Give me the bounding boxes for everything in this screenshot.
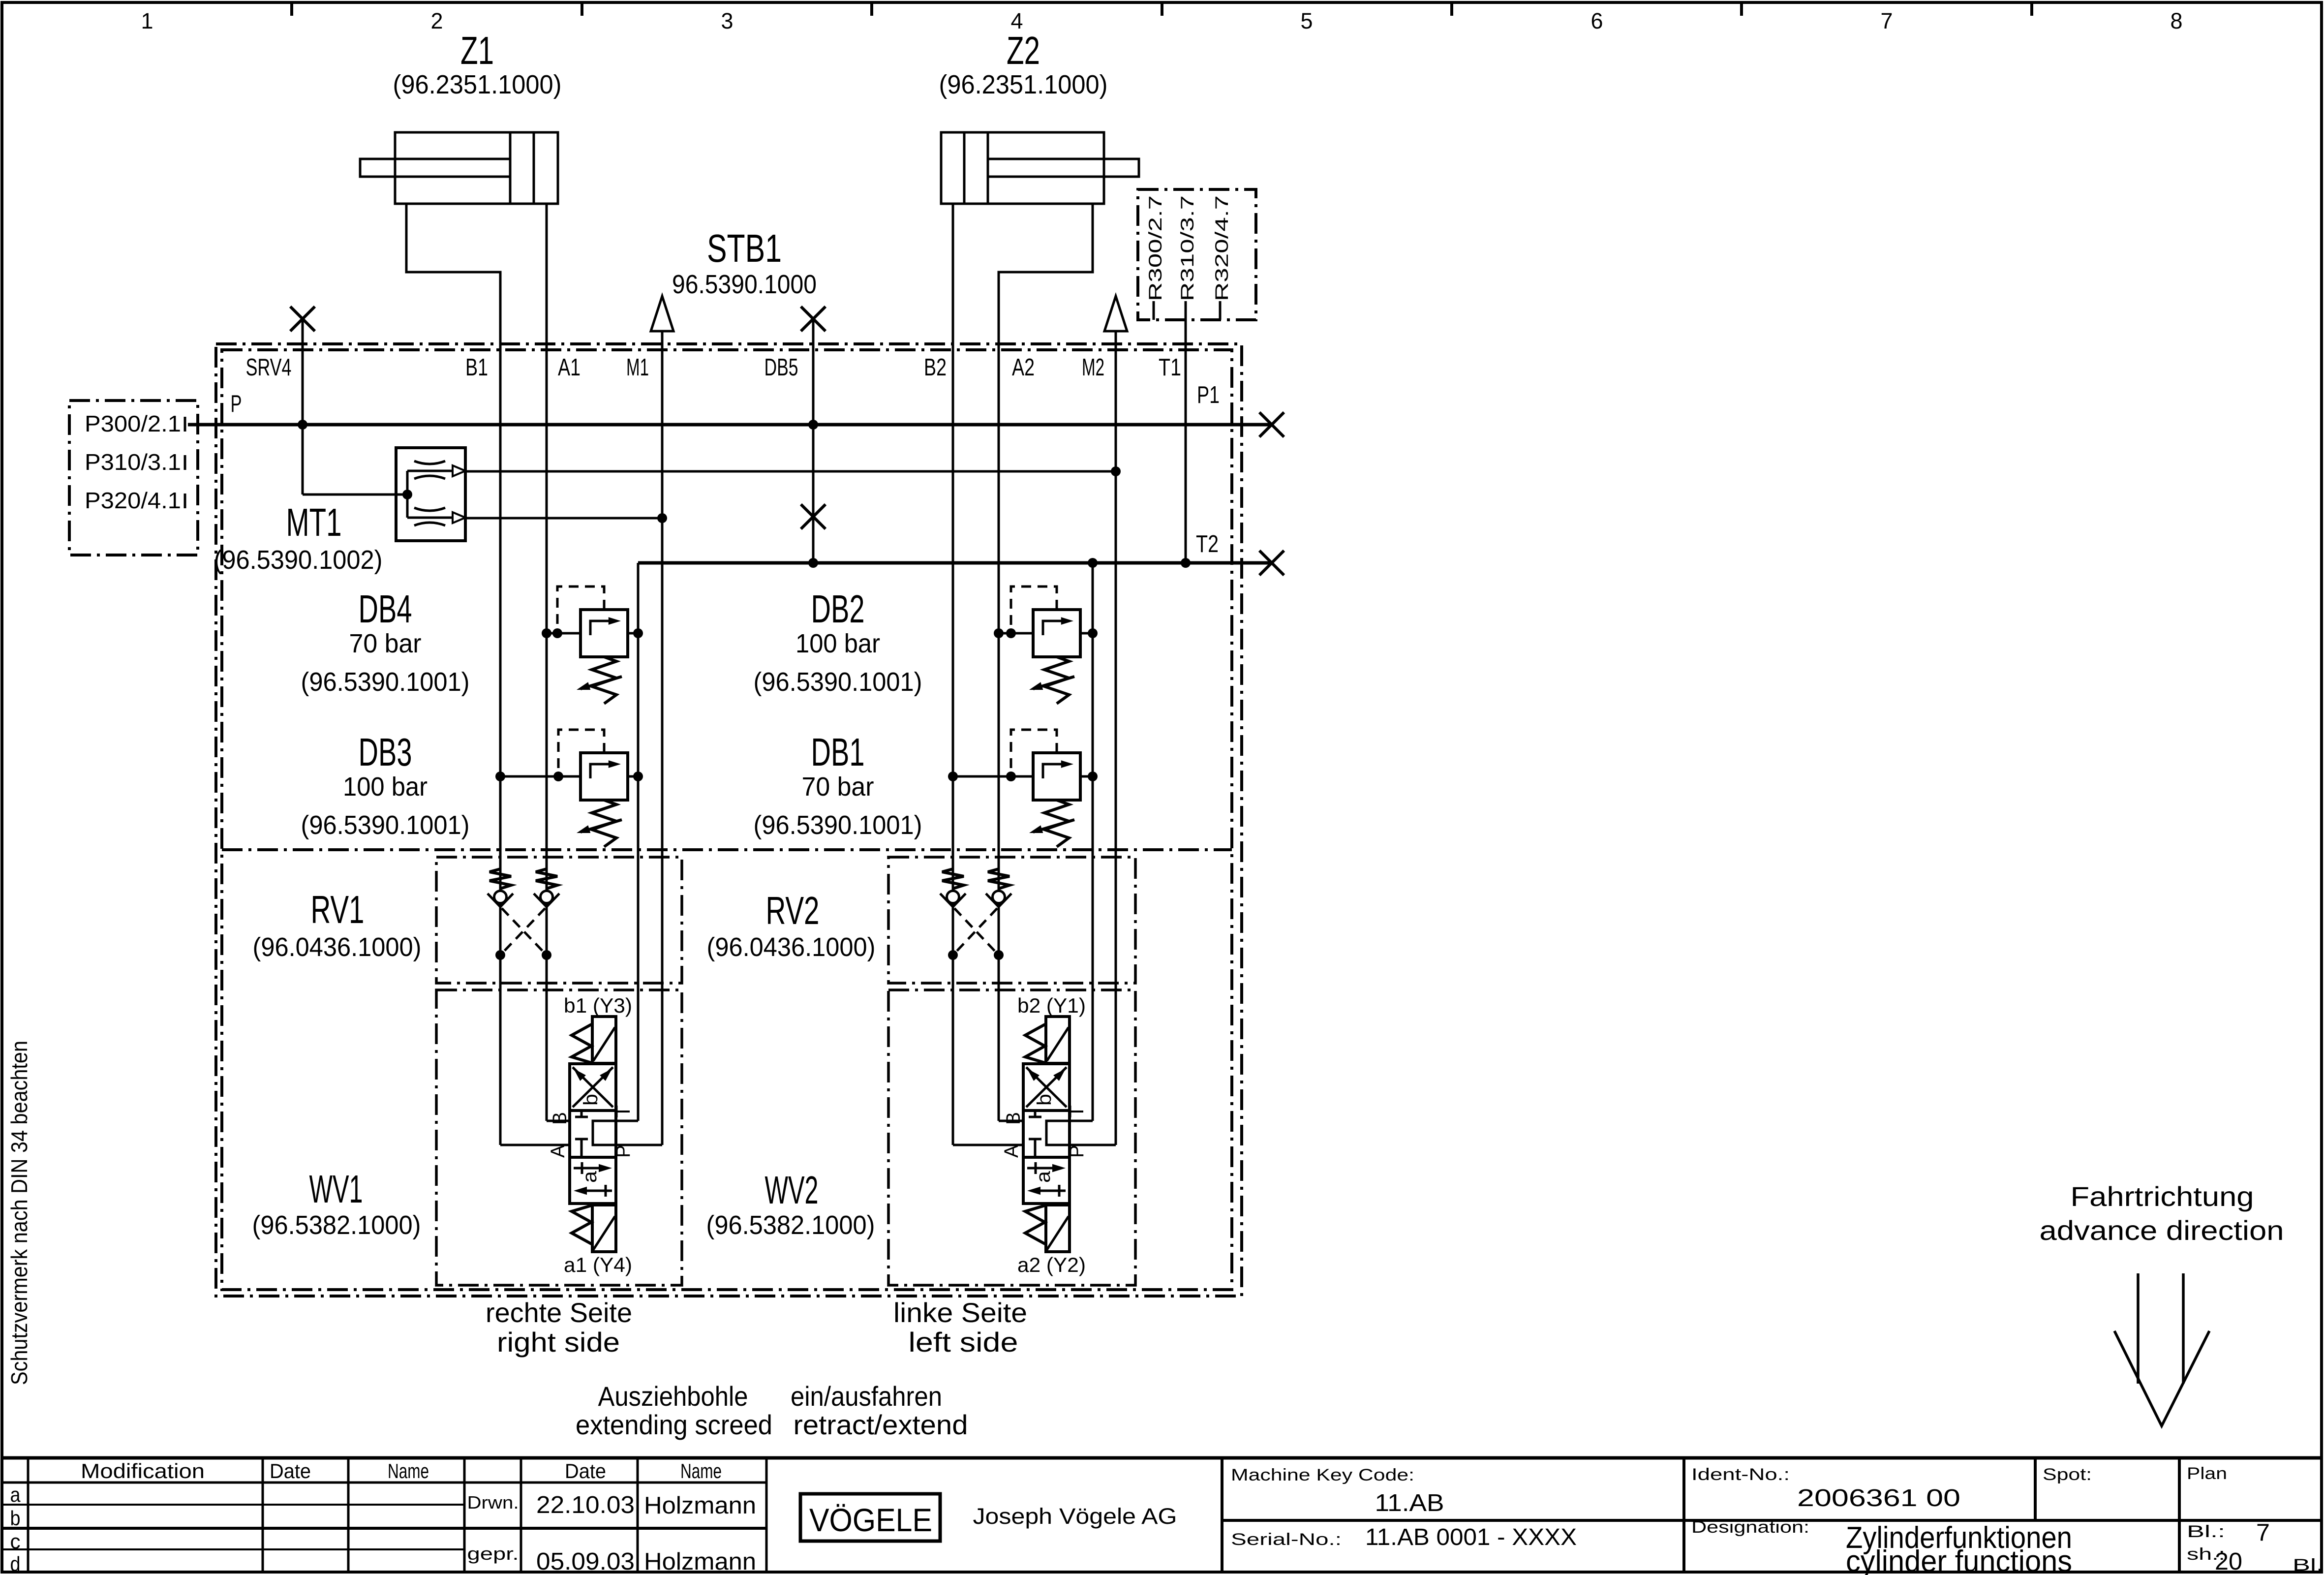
svg-text:b: b <box>580 1094 602 1106</box>
svg-text:Bl.:: Bl.: <box>2293 1556 2324 1575</box>
svg-text:B: B <box>549 1112 571 1125</box>
svg-text:extending screed: extending screed <box>576 1409 772 1440</box>
svg-text:Drwn.: Drwn. <box>467 1492 519 1513</box>
directional valve WV2 body <box>1023 1064 1070 1204</box>
relief valve DB2 <box>999 587 1093 704</box>
wire MT1 bottom output <box>465 517 662 520</box>
junction DB4 pilot <box>552 628 562 638</box>
svg-text:a: a <box>579 1171 601 1183</box>
wire M2 to WV2 P port <box>1069 1144 1116 1146</box>
svg-text:a: a <box>1033 1171 1054 1183</box>
cylinder Z1 <box>360 132 558 204</box>
svg-text:Joseph Vögele AG: Joseph Vögele AG <box>973 1504 1177 1529</box>
svg-text:WV1: WV1 <box>309 1167 363 1211</box>
svg-text:70 bar: 70 bar <box>349 629 422 658</box>
wire Z1 cap side A1 <box>546 204 548 1121</box>
svg-text:WV2: WV2 <box>765 1168 819 1212</box>
junction T2 x T1 <box>1181 558 1191 568</box>
svg-text:2006361 00: 2006361 00 <box>1797 1485 1960 1512</box>
junction P x SRV4 <box>298 420 307 430</box>
svg-text:Schutzvermerk nach DIN 34 beac: Schutzvermerk nach DIN 34 beachten <box>6 1041 32 1385</box>
wire M1 to WV1 P port <box>616 1144 662 1146</box>
svg-text:(96.5390.1002): (96.5390.1002) <box>214 545 383 575</box>
directional valve WV1 body <box>570 1064 616 1204</box>
svg-text:Spot:: Spot: <box>2043 1465 2092 1484</box>
plug X on DB5 line <box>801 504 826 529</box>
title block dividers <box>1222 1458 2322 1572</box>
svg-text:VÖGELE: VÖGELE <box>809 1502 932 1538</box>
junction M1 x MT1 output <box>657 513 667 523</box>
svg-text:SRV4: SRV4 <box>246 354 292 381</box>
junction RV2 pilot left <box>948 950 958 960</box>
junction DB3 rail <box>633 772 643 781</box>
svg-text:DB1: DB1 <box>811 730 865 774</box>
svg-text:DB3: DB3 <box>359 730 412 774</box>
svg-text:a2 (Y2): a2 (Y2) <box>1017 1253 1086 1276</box>
svg-text:DB2: DB2 <box>811 587 865 631</box>
relief valve DB4 <box>547 587 638 704</box>
svg-text:b: b <box>10 1507 21 1530</box>
junction DB1 rail <box>1088 772 1098 781</box>
junction DB2 left <box>994 628 1004 638</box>
svg-text:RV1: RV1 <box>311 888 365 931</box>
junction DB3 pilot <box>553 772 563 781</box>
wire Z1 rod side to B1 <box>406 204 500 1145</box>
svg-text:M2: M2 <box>1082 354 1104 381</box>
junction P x DB5 <box>808 420 818 430</box>
RV1 section dash-dot box <box>436 857 682 983</box>
junction DB4 left <box>542 628 551 638</box>
junction RV1 pilot right <box>542 950 551 960</box>
svg-text:Serial-No.:: Serial-No.: <box>1231 1530 1342 1549</box>
cylinder Z2 <box>941 132 1139 204</box>
svg-text:Holzmann: Holzmann <box>644 1548 756 1575</box>
svg-text:Holzmann: Holzmann <box>644 1492 756 1519</box>
RV2 section dash-dot box <box>888 857 1135 983</box>
svg-text:P300/2.1: P300/2.1 <box>85 411 181 436</box>
svg-text:7: 7 <box>1881 8 1893 33</box>
check valve RV2b <box>986 869 1011 907</box>
wire M2 vertical <box>1115 331 1117 1145</box>
svg-text:Fahrtrichtung: Fahrtrichtung <box>2071 1181 2254 1212</box>
plug X at SRV4 <box>290 307 315 331</box>
svg-text:100 bar: 100 bar <box>343 772 428 802</box>
junction DB3 left <box>495 772 505 781</box>
junction M2 x MT1 output <box>1111 466 1121 476</box>
svg-text:20: 20 <box>2215 1548 2242 1575</box>
svg-text:cylinder functions: cylinder functions <box>1846 1544 2072 1575</box>
svg-text:(96.5390.1001): (96.5390.1001) <box>754 810 922 840</box>
svg-text:a1 (Y4): a1 (Y4) <box>564 1253 632 1276</box>
svg-text:A2: A2 <box>1012 354 1035 381</box>
svg-text:70 bar: 70 bar <box>802 772 874 802</box>
wire B1 to WV1 A port <box>500 1144 570 1146</box>
svg-text:a: a <box>10 1483 21 1506</box>
junction DB4 rail <box>633 628 643 638</box>
wire T1 vertical <box>1185 301 1187 563</box>
svg-text:DB4: DB4 <box>359 587 412 631</box>
advance direction arrow <box>2114 1273 2209 1426</box>
WV2 section dash-dot box <box>888 990 1135 1285</box>
plug X at T2 <box>1259 551 1284 575</box>
svg-text:A: A <box>1001 1145 1022 1158</box>
wire tank rail left <box>637 563 640 1121</box>
svg-text:left side: left side <box>909 1327 1018 1358</box>
svg-text:R310/3.7: R310/3.7 <box>1177 195 1197 301</box>
check valve RV2a <box>940 869 966 907</box>
svg-text:rechte Seite: rechte Seite <box>486 1297 632 1328</box>
check valve RV1a <box>488 869 513 907</box>
title block top line <box>2 1456 2322 1460</box>
wire SRV4 to MT1 <box>303 494 407 496</box>
svg-text:(96.5390.1001): (96.5390.1001) <box>754 667 922 697</box>
svg-text:Modification: Modification <box>81 1459 205 1482</box>
check valve RV1b <box>534 869 559 907</box>
svg-text:P1: P1 <box>1197 382 1220 408</box>
svg-text:05.09.03: 05.09.03 <box>536 1548 635 1575</box>
svg-text:Z1: Z1 <box>460 29 494 72</box>
wire DB5 vertical <box>812 319 815 563</box>
junction DB2 rail <box>1088 628 1098 638</box>
svg-text:T1: T1 <box>1159 354 1181 381</box>
wire M1 vertical <box>661 331 664 1145</box>
svg-text:1: 1 <box>141 8 153 33</box>
pilot cross lines RV2 <box>954 908 997 954</box>
junction DB1 pilot <box>1006 772 1016 781</box>
svg-text:b2 (Y1): b2 (Y1) <box>1017 994 1086 1017</box>
svg-text:5: 5 <box>1301 8 1313 33</box>
junction MT1 inlet <box>402 490 412 499</box>
gauge symbol M2 <box>1104 296 1127 331</box>
svg-text:b1 (Y3): b1 (Y3) <box>564 994 632 1017</box>
gauge symbol M1 <box>651 296 673 331</box>
wire MT1 top output <box>465 470 1116 473</box>
svg-text:7: 7 <box>2256 1519 2270 1546</box>
svg-text:d: d <box>10 1552 21 1575</box>
relief valve DB1 <box>953 730 1093 847</box>
junction RV2 pilot right <box>994 950 1004 960</box>
svg-text:gepr.: gepr. <box>467 1544 519 1564</box>
wire Z2 rod side to A2 <box>999 204 1093 1121</box>
svg-text:6: 6 <box>1591 8 1603 33</box>
svg-text:linke Seite: linke Seite <box>893 1297 1027 1328</box>
svg-text:Plan: Plan <box>2187 1464 2227 1483</box>
svg-text:(96.5382.1000): (96.5382.1000) <box>252 1210 421 1240</box>
svg-text:11.AB: 11.AB <box>1375 1490 1444 1516</box>
svg-text:96.5390.1000: 96.5390.1000 <box>672 270 817 299</box>
svg-text:retract/extend: retract/extend <box>794 1409 968 1440</box>
solenoid b2 (Y1) <box>1025 1017 1070 1063</box>
column ticks top border <box>290 2 293 16</box>
svg-text:R320/4.7: R320/4.7 <box>1212 195 1232 301</box>
svg-text:(96.5382.1000): (96.5382.1000) <box>706 1210 875 1240</box>
solenoid a1 (Y4) <box>572 1205 616 1252</box>
svg-text:b: b <box>1034 1094 1055 1106</box>
svg-text:T: T <box>1066 1105 1088 1118</box>
svg-text:8: 8 <box>2171 8 2183 33</box>
junction DB2 pilot <box>1006 628 1016 638</box>
svg-text:3: 3 <box>721 8 734 33</box>
WV1 section dash-dot box <box>436 990 682 1285</box>
svg-text:Z2: Z2 <box>1007 29 1040 72</box>
wire A2 to WV2 B port <box>999 1120 1023 1122</box>
svg-text:2: 2 <box>431 8 443 33</box>
svg-text:M1: M1 <box>626 354 649 381</box>
svg-text:c: c <box>10 1530 21 1553</box>
svg-text:22.10.03: 22.10.03 <box>536 1492 635 1518</box>
svg-text:STB1: STB1 <box>707 226 782 270</box>
svg-text:Ident-No.:: Ident-No.: <box>1691 1465 1790 1484</box>
VOGELE logo box <box>800 1494 940 1541</box>
svg-text:Bl.:: Bl.: <box>2187 1522 2225 1541</box>
svg-text:P310/3.1: P310/3.1 <box>85 449 181 475</box>
P300 off-page connector dash-dot box <box>69 401 198 555</box>
solenoid a2 (Y2) <box>1025 1205 1070 1252</box>
svg-text:ein/ausfahren: ein/ausfahren <box>791 1381 942 1412</box>
plug X at P1 <box>1259 412 1284 437</box>
solenoid b1 (Y3) <box>572 1017 616 1063</box>
svg-text:(96.2351.1000): (96.2351.1000) <box>939 70 1108 99</box>
junction T2 x rail right <box>1088 558 1098 568</box>
svg-text:RV2: RV2 <box>766 889 820 932</box>
wire tank rail right <box>1092 563 1094 1121</box>
svg-text:A: A <box>547 1145 569 1158</box>
wire Z2 cap side B2 <box>952 204 954 1145</box>
junction RV1 pilot left <box>495 950 505 960</box>
svg-text:Designation:: Designation: <box>1691 1518 1809 1537</box>
pilot cross lines RV1 <box>502 908 545 954</box>
svg-text:A1: A1 <box>558 354 581 381</box>
STB1 manifold boundary outer dash-dot box <box>216 344 1242 1296</box>
STB1 manifold boundary inner dash-dot box <box>222 350 1232 1290</box>
svg-text:(96.2351.1000): (96.2351.1000) <box>393 70 562 99</box>
wire T2 tank line <box>638 561 1272 565</box>
junction T2 x DB5 <box>808 558 818 568</box>
R300 off-page connector dash-dot box <box>1138 189 1256 320</box>
manifold internal separator dash-dot <box>222 848 1232 851</box>
plug X at DB5 top <box>801 307 826 331</box>
svg-text:advance direction: advance direction <box>2040 1215 2284 1246</box>
wire rail to WV2 T port <box>1069 1120 1093 1122</box>
wire A1 to WV1 B port <box>547 1120 570 1122</box>
svg-text:100 bar: 100 bar <box>795 629 880 658</box>
svg-text:T: T <box>612 1105 634 1118</box>
svg-text:Date: Date <box>565 1459 606 1482</box>
svg-text:P: P <box>1066 1145 1088 1158</box>
svg-text:Date: Date <box>270 1459 311 1482</box>
svg-text:Name: Name <box>388 1459 429 1482</box>
svg-text:(96.5390.1001): (96.5390.1001) <box>301 667 470 697</box>
svg-text:P320/4.1: P320/4.1 <box>85 488 181 513</box>
svg-text:right side: right side <box>497 1327 620 1358</box>
svg-text:B2: B2 <box>924 354 947 381</box>
modification table <box>2 1458 766 1572</box>
svg-text:Ausziehbohle: Ausziehbohle <box>598 1381 748 1412</box>
svg-text:R300/2.7: R300/2.7 <box>1145 195 1165 301</box>
wire SRV4 vertical <box>302 319 304 494</box>
svg-text:(96.0436.1000): (96.0436.1000) <box>253 932 422 962</box>
flow divider MT1 <box>396 448 465 541</box>
wire B2 to WV2 A port <box>953 1144 1023 1146</box>
svg-text:(96.0436.1000): (96.0436.1000) <box>707 932 876 962</box>
junction DB1 left <box>948 772 958 781</box>
svg-text:P: P <box>231 391 242 417</box>
svg-text:(96.5390.1001): (96.5390.1001) <box>301 810 470 840</box>
svg-text:Machine Key Code:: Machine Key Code: <box>1231 1466 1414 1484</box>
wire P main pressure line <box>188 423 1272 427</box>
wire rail to WV1 T port <box>616 1120 638 1122</box>
svg-text:Name: Name <box>680 1459 722 1482</box>
svg-text:B1: B1 <box>465 354 488 381</box>
svg-text:B: B <box>1003 1112 1024 1125</box>
svg-text:T2: T2 <box>1196 531 1219 557</box>
svg-text:P: P <box>612 1145 634 1158</box>
relief valve DB3 <box>500 730 638 847</box>
svg-text:DB5: DB5 <box>764 354 798 381</box>
svg-text:MT1: MT1 <box>286 500 342 544</box>
svg-text:11.AB 0001 - XXXX: 11.AB 0001 - XXXX <box>1365 1524 1577 1550</box>
